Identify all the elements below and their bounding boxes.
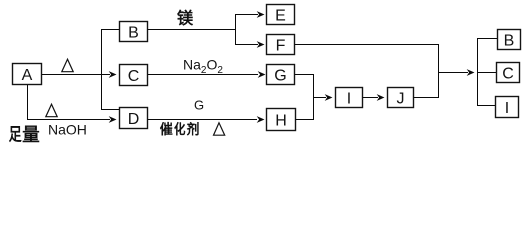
svg-text:G: G	[194, 98, 204, 113]
GH merge vertical wire	[313, 75, 315, 120]
wire split to I right	[477, 105, 496, 107]
svg-text:H: H	[275, 113, 287, 130]
FJ merge vertical wire	[438, 45, 440, 98]
wire split to D	[101, 109, 120, 111]
wire NaOH path to D	[27, 119, 110, 121]
wire F to merge	[295, 44, 440, 46]
wire A down	[27, 85, 29, 120]
label Mg (mei)	[177, 10, 192, 25]
svg-text:C: C	[128, 68, 140, 85]
label delta after catalyst	[214, 123, 225, 135]
svg-text:A: A	[22, 67, 33, 84]
wire J to merge	[414, 97, 440, 99]
box C right	[497, 63, 520, 83]
arrowhead into C	[109, 71, 117, 78]
box C left	[120, 65, 148, 86]
arrowhead into D	[109, 116, 117, 123]
label zuliang char liang	[23, 126, 39, 142]
svg-text:E: E	[275, 8, 286, 25]
box D	[120, 108, 148, 129]
final split vertical wire	[477, 39, 479, 106]
label catalyst char cui	[160, 122, 172, 135]
wire split to B	[101, 29, 120, 31]
arrowhead into F	[257, 41, 265, 48]
wire split to E	[235, 14, 258, 16]
box I right	[496, 97, 519, 118]
svg-text:C: C	[502, 66, 514, 83]
label zuliang char zu	[9, 126, 21, 142]
wire D to H	[148, 119, 258, 121]
label delta above NaOH wire	[46, 104, 57, 117]
svg-text:Na2O2: Na2O2	[183, 57, 223, 77]
arrowhead into final split	[467, 69, 475, 76]
arrowhead into H	[257, 116, 265, 123]
split vertical wire	[101, 30, 103, 110]
arrowhead into G	[258, 71, 266, 78]
box F	[267, 35, 295, 55]
label catalyst char ji	[187, 122, 198, 135]
box H	[267, 109, 296, 131]
wire split to B right	[477, 38, 498, 40]
arrowhead into E	[257, 11, 265, 18]
wire I to J	[363, 97, 379, 99]
svg-text:F: F	[276, 38, 286, 55]
box B left	[120, 22, 148, 42]
arrowhead into I	[325, 94, 333, 101]
svg-text:I: I	[505, 100, 509, 117]
wire split to F	[235, 44, 258, 46]
label delta above A-C wire	[62, 59, 73, 71]
box E	[267, 5, 295, 25]
wire split to C right	[477, 72, 497, 74]
wire C to G	[148, 74, 259, 76]
EF split vertical wire	[235, 15, 237, 45]
svg-text:D: D	[128, 111, 140, 128]
wire H to merge	[296, 119, 315, 121]
box A	[13, 64, 42, 85]
svg-text:G: G	[274, 68, 286, 85]
box B right	[498, 30, 521, 50]
wire merge to I	[313, 97, 326, 99]
svg-text:J: J	[397, 91, 405, 108]
wire G to merge	[295, 74, 315, 76]
svg-text:I: I	[347, 91, 351, 108]
arrowhead into J	[377, 94, 385, 101]
wire B to EF split	[148, 29, 237, 31]
label catalyst char hua	[175, 122, 186, 135]
box J	[388, 88, 414, 108]
wire A to C	[41, 74, 110, 76]
box G	[267, 65, 295, 85]
svg-text:B: B	[128, 25, 139, 42]
wire merge to final split	[438, 72, 468, 74]
box I middle	[336, 88, 363, 108]
svg-text:B: B	[504, 33, 515, 50]
svg-text:NaOH: NaOH	[48, 122, 87, 138]
